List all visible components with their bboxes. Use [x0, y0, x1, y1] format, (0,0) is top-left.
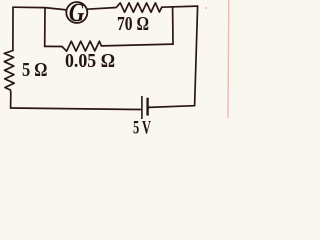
wire shunt bottom left stub: [45, 45, 62, 47]
resistor R1 70 ohm zigzag: [114, 3, 162, 12]
wire top right segment: [162, 6, 198, 7]
red speck: [205, 7, 207, 9]
wire shunt bottom right stub: [101, 44, 173, 46]
svg-text:70 Ω: 70 Ω: [117, 13, 149, 35]
battery B1 long plate: [141, 96, 143, 119]
svg-text:5 V: 5 V: [133, 118, 151, 137]
red margin line: [227, 0, 230, 118]
wire shunt right vertical: [172, 7, 174, 44]
wire bottom left segment: [11, 108, 141, 110]
wire top left segment: [13, 7, 67, 10]
svg-text:G: G: [69, 0, 85, 27]
wire outer right vertical: [195, 6, 198, 106]
battery B1 short plate: [146, 98, 148, 116]
wire outer left vertical lower: [10, 93, 12, 109]
wire outer left vertical upper: [12, 7, 14, 50]
resistor R3 5 ohm zigzag: [4, 51, 14, 93]
svg-text:5 Ω: 5 Ω: [22, 59, 48, 81]
wire bottom right segment: [149, 106, 195, 108]
wire shunt left vertical: [44, 8, 46, 47]
galvanometer U1 circle: [66, 2, 87, 23]
resistor R2 0.05 ohm zigzag: [62, 41, 101, 51]
svg-text:0.05 Ω: 0.05 Ω: [65, 51, 115, 72]
wire top middle segment: [87, 8, 114, 10]
